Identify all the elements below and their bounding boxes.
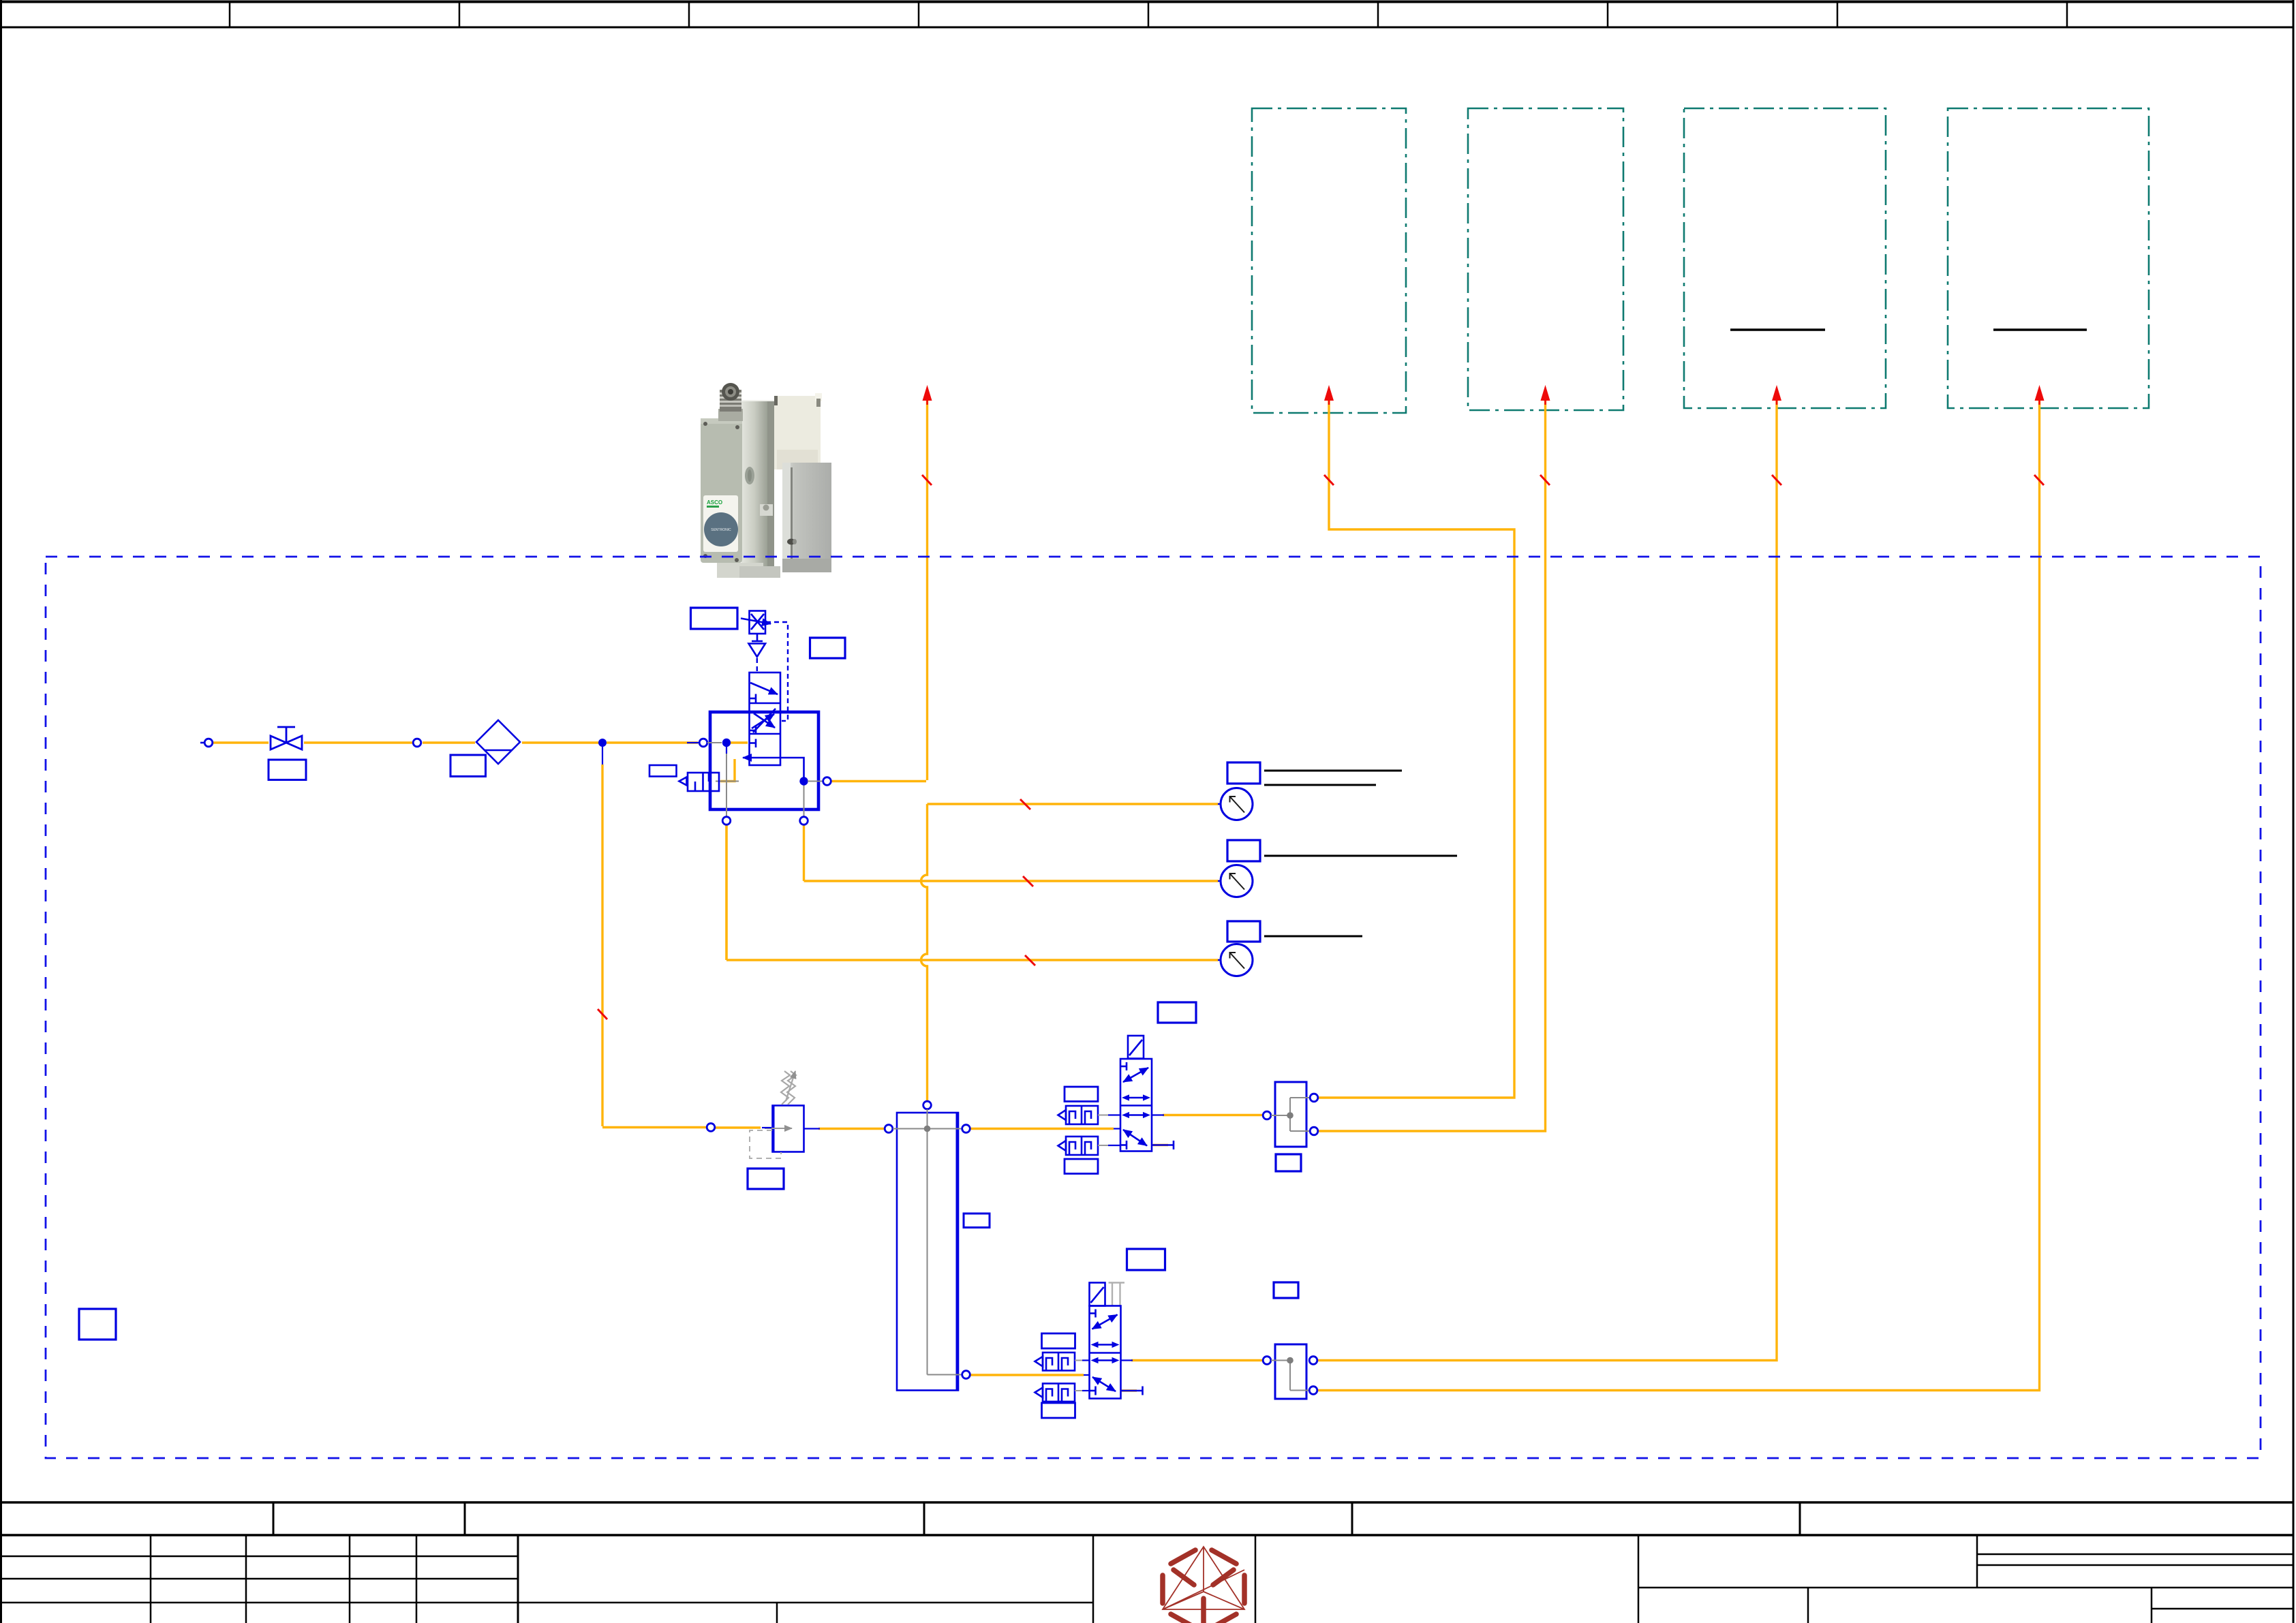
svg-text:SENTRONIC: SENTRONIC xyxy=(711,528,731,532)
label shutoff valve xyxy=(269,760,306,780)
frame top strip dividers xyxy=(230,1,2067,27)
bottom cell tee pin xyxy=(750,742,756,744)
manifold inlet port xyxy=(885,1125,893,1133)
spare label box left xyxy=(79,1309,116,1340)
manifold bottom right port xyxy=(962,1371,970,1379)
valve 2 spring lower xyxy=(1035,1384,1075,1402)
main orange wires xyxy=(213,399,2040,1391)
shuttle 2 left port xyxy=(1263,1357,1271,1365)
valve 1 blocked port right xyxy=(1152,1144,1174,1146)
label shuttle 2 xyxy=(1274,1282,1298,1298)
red arrow dest 4 xyxy=(2035,385,2045,401)
wire riser to arrow A xyxy=(926,399,928,780)
node inside regulator xyxy=(722,739,731,747)
relief valve dashed pilot hook xyxy=(750,1130,781,1158)
manifold right port xyxy=(962,1125,970,1133)
valve 2 top tee xyxy=(1090,1312,1096,1314)
label exhaust valve xyxy=(649,765,677,777)
wire shuttle 1 bottom to dest 2 xyxy=(1318,399,1546,1131)
regulator bold enclosure xyxy=(710,712,818,809)
signal line gauge 1a xyxy=(1264,770,1402,772)
middle cell tee pin xyxy=(750,730,756,732)
wire relief outlet to manifold port xyxy=(818,1128,884,1130)
frame left border xyxy=(0,0,2,1623)
title table right-side cells xyxy=(1638,1535,2294,1623)
check valve triangle xyxy=(749,644,766,658)
valve 1 crossover arrow xyxy=(1123,1068,1148,1082)
shutoff valve V1 xyxy=(271,727,302,749)
regulator bottom right port xyxy=(800,817,808,825)
label shuttle 1 xyxy=(1276,1154,1301,1171)
black line in box 4 xyxy=(1993,328,2087,331)
wire branch down from junction xyxy=(601,764,603,1126)
junction node supply xyxy=(598,739,607,747)
wire regulator output to riser xyxy=(831,780,926,782)
black line in box 3 xyxy=(1730,328,1825,331)
label valve 1 xyxy=(1158,1002,1196,1023)
wire valve 2 blocked stub xyxy=(1122,1389,1137,1391)
gauge 2 xyxy=(1218,880,1221,882)
wire to gauge 3 xyxy=(726,959,1219,961)
regulator left port xyxy=(699,739,707,747)
system boundary dashed box xyxy=(46,557,2261,1458)
label gauge 3 xyxy=(1227,921,1260,942)
exhaust valve 2/2 xyxy=(679,773,720,791)
red arrow dest 1 xyxy=(1324,385,1334,401)
filter F1 xyxy=(476,720,520,764)
red arrow dest 3 xyxy=(1772,385,1781,401)
label regulator right xyxy=(810,638,846,658)
relief inlet port xyxy=(707,1124,715,1132)
valve 2 spring upper xyxy=(1035,1352,1075,1371)
shuttle block 1 xyxy=(1275,1082,1306,1147)
valve 1 bottom tee xyxy=(1120,1144,1127,1146)
relief valve spring xyxy=(781,1071,790,1104)
label relief valve xyxy=(748,1169,784,1189)
check valve stub and tee xyxy=(752,634,763,641)
pilot dashed drop to valve block xyxy=(756,658,758,672)
shuttle 1 node xyxy=(1287,1112,1294,1119)
valve 1 spring upper xyxy=(1058,1106,1099,1124)
gray drop from node xyxy=(726,747,727,817)
label valve 2 spring upper xyxy=(1042,1333,1075,1348)
signal line gauge 2 xyxy=(1264,855,1457,857)
shuttle 1 left port xyxy=(1263,1111,1271,1119)
wire shuttle 2 top to dest 3 xyxy=(1317,399,1777,1361)
top cell tee pin xyxy=(750,698,756,700)
regulator internal return line xyxy=(743,758,804,777)
wire manifold bottom out to valve 2 xyxy=(970,1374,1084,1376)
title table bottom row divider xyxy=(776,1603,778,1623)
svg-text:ASCO: ASCO xyxy=(707,499,722,506)
wire relief inlet xyxy=(716,1126,761,1128)
distribution manifold xyxy=(897,1113,958,1391)
shuttle 2 node xyxy=(1287,1357,1294,1364)
label gauge 1 xyxy=(1227,762,1260,784)
pilot valve 2 body xyxy=(1090,1306,1143,1399)
gray link port to node xyxy=(707,742,722,743)
valve 2 gray actuator xyxy=(1109,1283,1125,1306)
manifold node xyxy=(924,1126,931,1132)
dest box 4 xyxy=(1948,108,2149,408)
wire shuttle 1 top to dest 1 xyxy=(1318,399,1514,1098)
positioner photo xyxy=(701,383,831,578)
wire shuttle 2 bottom to dest 4 xyxy=(1317,399,2040,1391)
flow control screw symbol xyxy=(741,611,771,634)
title block upper line xyxy=(0,1501,2294,1504)
wire gauge riser with jumps xyxy=(921,804,928,1100)
shuttle 2 gray tree xyxy=(1271,1361,1309,1391)
pilot valve 2 solenoid xyxy=(1090,1283,1105,1306)
title table logo cell borders xyxy=(1092,1535,1095,1623)
valve 2 spring links xyxy=(1075,1360,1082,1361)
wire valve 1 out to shuttle 1 xyxy=(1163,1114,1262,1116)
red line-break slashes xyxy=(598,475,2044,1019)
label filter xyxy=(450,755,486,777)
wire valve 1 blocked stub xyxy=(1153,1144,1168,1146)
shuttle block 2 xyxy=(1275,1344,1306,1399)
wire filter to junction xyxy=(522,741,602,743)
wire dot to valve block pilot xyxy=(731,741,748,743)
middle cell crossed arrows xyxy=(752,714,774,728)
valve 2 double arrow flow row xyxy=(1097,1359,1114,1361)
title table rows left xyxy=(0,1556,1093,1603)
wire regulator bottom right port down xyxy=(803,824,805,881)
valve 1 double arrow lower (flow row) xyxy=(1128,1114,1144,1116)
port between valve and filter xyxy=(413,739,421,747)
title block second line xyxy=(0,1534,2294,1536)
label manifold xyxy=(964,1214,990,1228)
shuttle 2 right ports xyxy=(1309,1357,1317,1365)
wire to gauge 2 xyxy=(804,880,1219,882)
inlet port xyxy=(204,739,213,747)
label valve 1 spring upper xyxy=(1065,1087,1098,1102)
dest box 1 (dash-dot teal) xyxy=(1252,108,1406,413)
gray pilot link at exhaust valve xyxy=(716,781,739,782)
title table columns left xyxy=(151,1535,416,1623)
wire inlet to shutoff valve xyxy=(213,741,269,743)
company logo hexagon xyxy=(1163,1547,1244,1623)
valve 1 spring links xyxy=(1098,1115,1108,1116)
dest box 2 xyxy=(1468,108,1623,410)
valve 1 port stubs blue xyxy=(1114,1128,1120,1129)
pilot valve 1 solenoid xyxy=(1128,1036,1144,1059)
label valve 2 spring lower xyxy=(1042,1403,1075,1418)
gauge 3 xyxy=(1218,959,1221,961)
valve 2 crossover arrow xyxy=(1092,1315,1118,1329)
wire valve 2 out to shuttle 2 xyxy=(1131,1359,1262,1361)
relief valve gray flow arrow xyxy=(765,1128,792,1129)
valve 1 spring lower xyxy=(1058,1137,1099,1155)
frame top strip bottom line xyxy=(0,27,2294,29)
shuttle 1 gray tree xyxy=(1271,1098,1310,1131)
valve 2 bottom tee xyxy=(1090,1390,1096,1392)
red arrow A (to positioner) xyxy=(923,385,932,401)
manifold top port xyxy=(923,1101,932,1109)
frame right border xyxy=(2293,0,2295,1623)
inlet port stub xyxy=(200,742,204,744)
gray link to output port xyxy=(808,781,823,782)
title strip dividers xyxy=(273,1502,1800,1535)
valve 2 blocked port right xyxy=(1121,1390,1143,1392)
shuttle 1 right ports xyxy=(1310,1094,1318,1102)
valve 1 top tee xyxy=(1120,1066,1127,1068)
top cell flow arrow xyxy=(750,683,778,694)
gauge 1 xyxy=(1218,803,1221,805)
regulator bottom left port xyxy=(722,817,731,825)
wire to gauge 1 xyxy=(928,803,1219,805)
pilot valve 1 body xyxy=(1120,1059,1174,1151)
wire shutoff valve to port xyxy=(304,741,412,743)
red arrow dest 2 xyxy=(1541,385,1550,401)
valve 2 double arrow upper xyxy=(1097,1344,1114,1346)
wire port to filter xyxy=(423,741,475,743)
wire regulator bottom left port down xyxy=(725,824,727,960)
wire junction to regulator port xyxy=(607,741,698,743)
valve 2 port stubs blue xyxy=(1084,1374,1090,1376)
pilot dashed loop right xyxy=(766,622,788,721)
signal line gauge 1b xyxy=(1264,784,1376,786)
wire below regulator left bottom port xyxy=(725,824,727,960)
wire regulator pilot elbow xyxy=(720,759,735,782)
signal line gauge 3 xyxy=(1264,936,1362,938)
label flow control xyxy=(691,608,738,629)
wire manifold out to valve 1 xyxy=(970,1128,1114,1130)
valve 1 lower diagonal xyxy=(1123,1130,1147,1146)
node regulator output xyxy=(799,777,808,785)
proportional valve block xyxy=(750,673,781,765)
manifold internal gray tree xyxy=(893,1109,962,1375)
relief valve R1 xyxy=(773,1106,804,1152)
regulator output port xyxy=(823,777,831,786)
valve 2 lower diagonal xyxy=(1092,1377,1116,1391)
frame top border xyxy=(0,1,2294,3)
dest box 3 xyxy=(1684,108,1886,408)
regulator bottom right gray drop xyxy=(803,785,805,817)
label valve 1 spring lower xyxy=(1065,1159,1098,1174)
wire elbow to relief valve port xyxy=(602,1126,706,1128)
valve 1 double arrow upper xyxy=(1128,1097,1144,1099)
label gauge 2 xyxy=(1227,840,1260,861)
label valve 2 xyxy=(1127,1249,1165,1270)
